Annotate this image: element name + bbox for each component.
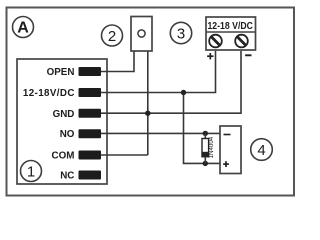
terminal GND	[79, 109, 102, 118]
circle label A	[13, 17, 34, 38]
exit button box	[131, 17, 152, 52]
screw terminal +	[209, 35, 222, 48]
svg-text:A: A	[17, 20, 29, 37]
circle label 3	[170, 22, 191, 43]
svg-text:3: 3	[177, 26, 185, 43]
wire supply junction to lock plus	[184, 93, 221, 164]
lock plus mark	[223, 161, 229, 167]
wire 12-18V/DC to supply plus	[101, 51, 216, 93]
power supply divider	[206, 31, 256, 33]
controller terminal box 1	[17, 59, 107, 184]
circle label 4	[251, 139, 273, 161]
minus label of supply	[245, 54, 251, 56]
svg-text:GND: GND	[53, 109, 75, 120]
terminal NC	[79, 171, 102, 180]
wire NO to lock	[101, 132, 220, 134]
svg-text:NO: NO	[60, 129, 75, 140]
circle label 2	[102, 25, 123, 46]
svg-text:NC: NC	[60, 171, 74, 182]
svg-text:1: 1	[27, 164, 35, 181]
terminal COM	[79, 151, 102, 160]
power supply box	[206, 17, 256, 50]
svg-text:COM: COM	[52, 151, 75, 162]
svg-text:OPEN: OPEN	[47, 67, 75, 78]
terminal OPEN	[79, 67, 102, 76]
terminal 12-18V/DC	[79, 88, 102, 97]
svg-text:2: 2	[108, 28, 116, 45]
junction dot diode bottom	[203, 161, 208, 166]
junction dot diode top	[203, 131, 208, 136]
wire COM	[101, 154, 148, 156]
wire OPEN to button	[101, 52, 134, 72]
wire GND to supply minus	[101, 51, 241, 113]
terminal NO	[79, 129, 102, 138]
screw terminal -	[235, 35, 248, 48]
lock minus mark	[224, 134, 231, 136]
diode D1 1N4004	[202, 133, 209, 163]
svg-text:1N4004: 1N4004	[208, 136, 215, 158]
electric lock box	[220, 126, 241, 174]
button circle	[138, 30, 145, 37]
outer frame	[7, 8, 295, 196]
svg-text:12-18 V/DC: 12-18 V/DC	[207, 21, 253, 32]
circle label 1	[21, 161, 42, 182]
junction dot on 12-18 wire	[181, 90, 186, 95]
wire button to GND/COM	[147, 52, 149, 156]
svg-text:12-18V/DC: 12-18V/DC	[23, 88, 75, 99]
svg-text:4: 4	[257, 142, 265, 159]
plus label of supply	[207, 53, 213, 59]
junction dot on GND wire	[145, 111, 150, 116]
